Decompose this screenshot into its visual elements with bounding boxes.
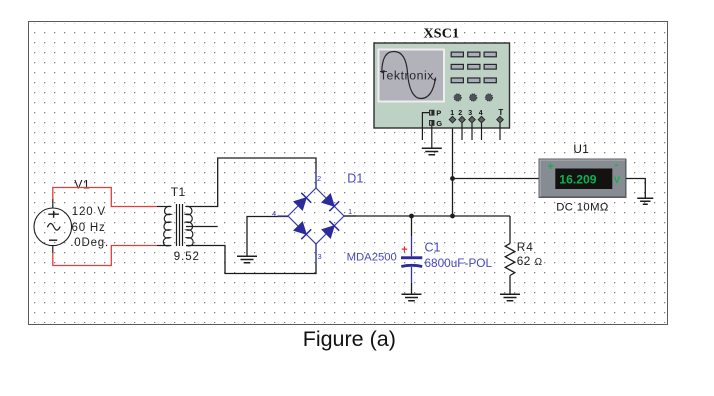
pin diamonds 1,2,3,4,T — [449, 116, 503, 123]
wire U1 negative to ground — [626, 179, 645, 199]
diode D1d lower-right (3 to 1) — [321, 221, 339, 239]
svg-text:Figure (a): Figure (a) — [303, 327, 396, 351]
wire V1 bottom to T1 primary bottom (red) — [53, 246, 157, 266]
diode D1b upper-right (2 to 1) — [321, 193, 339, 211]
wire bridge node 4 to ground — [247, 217, 288, 257]
svg-text:T: T — [498, 108, 503, 117]
svg-text:D1: D1 — [347, 172, 363, 186]
svg-text:P: P — [436, 109, 441, 118]
junction dot C1/output rail — [409, 214, 414, 219]
scope screen — [378, 49, 446, 103]
svg-text:120 V: 120 V — [72, 206, 106, 218]
wire probe P stub — [422, 113, 429, 140]
svg-text:G: G — [436, 119, 442, 128]
transformer T1 — [157, 204, 193, 246]
ground (transformer/bridge node 4) — [237, 256, 257, 262]
scope buttons 3x3 — [451, 52, 496, 83]
ground (R4) — [500, 294, 520, 300]
svg-text:V1: V1 — [74, 178, 90, 192]
svg-text:16.209: 16.209 — [559, 172, 596, 186]
svg-text:+: + — [401, 244, 407, 256]
svg-text:-: - — [615, 159, 619, 171]
svg-text:DC 10MΩ: DC 10MΩ — [556, 202, 608, 214]
ground (C1) — [402, 294, 422, 300]
meter body — [539, 159, 626, 198]
svg-text:1: 1 — [348, 207, 352, 216]
wire T1 secondary bottom to bridge node 3 — [186, 244, 316, 274]
pin G — [429, 120, 435, 126]
pin P — [429, 110, 435, 116]
svg-text:4: 4 — [479, 110, 483, 117]
svg-text:MDA2500: MDA2500 — [347, 252, 397, 264]
multimeter U1 — [539, 142, 653, 214]
svg-text:XSC1: XSC1 — [424, 26, 460, 41]
svg-text:3: 3 — [318, 252, 322, 261]
wire junction to C1 top plate — [411, 216, 413, 236]
pin stubs 2,3,4,T — [462, 123, 500, 140]
bridge rectifier D1 — [278, 170, 357, 264]
junction dot U1 branch — [450, 176, 455, 181]
ground (U1) — [637, 198, 653, 204]
svg-text:R4: R4 — [517, 240, 534, 254]
svg-text:6800uF-POL: 6800uF-POL — [425, 256, 493, 270]
wire T1 secondary center tap stub — [186, 226, 218, 228]
oscilloscope XSC1 — [374, 26, 510, 154]
diode D1a upper-left (4 to 2) — [293, 193, 311, 211]
svg-text:C1: C1 — [425, 241, 441, 255]
svg-text:4: 4 — [272, 209, 276, 218]
meter display — [555, 169, 612, 190]
svg-text:V: V — [614, 175, 621, 186]
scope knobs — [454, 94, 493, 101]
resistor R4 — [505, 216, 515, 294]
capacitor C1 — [401, 216, 422, 294]
junction dot scope wire / output rail — [450, 214, 455, 219]
wire G pin to ground — [431, 126, 433, 148]
wire scope pin 1 down to output rail — [452, 122, 454, 216]
svg-text:9.52: 9.52 — [174, 251, 200, 263]
sine wave trace — [382, 52, 436, 99]
svg-text:.0Deg.: .0Deg. — [70, 237, 109, 249]
AC source V1 symbol — [34, 208, 72, 246]
wire V1 top to T1 primary top (red) — [53, 188, 157, 207]
svg-text:Tektronix: Tektronix — [380, 69, 434, 83]
scope body — [374, 43, 510, 128]
wire junction to multimeter U1 — [453, 178, 540, 180]
wire bridge node 1 to output rail — [344, 215, 510, 217]
svg-text:60 Hz: 60 Hz — [72, 222, 106, 234]
wire T1 secondary top to bridge node 2 — [186, 158, 316, 207]
ground (scope G) — [422, 148, 442, 154]
svg-text:+: + — [548, 161, 554, 173]
svg-text:62 Ω: 62 Ω — [517, 254, 543, 268]
svg-text:2: 2 — [317, 174, 321, 183]
bridge diamond outline — [288, 188, 344, 244]
diode D1c lower-left (4 to 3) — [293, 221, 311, 239]
svg-text:T1: T1 — [171, 185, 186, 199]
svg-text:U1: U1 — [573, 142, 589, 156]
